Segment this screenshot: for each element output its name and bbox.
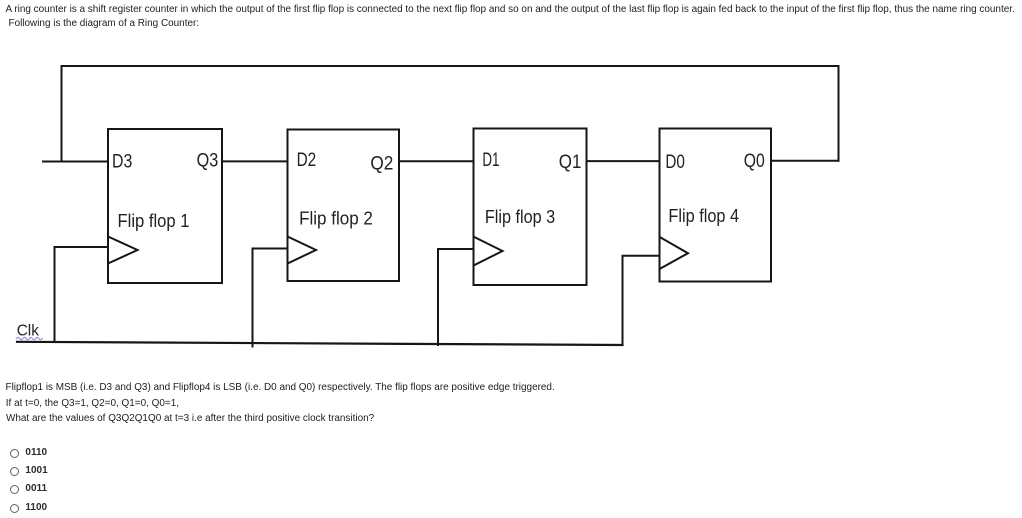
question line 2 — [6, 398, 179, 409]
flip-flop box FF1 — [108, 129, 222, 283]
svg-text:D1: D1 — [482, 149, 499, 171]
svg-text:D0: D0 — [665, 151, 685, 173]
wire clk to FF1 — [55, 247, 109, 342]
clock triangle FF3 — [474, 237, 503, 266]
wire Q2 to D1 — [399, 160, 474, 162]
flip-flop box FF4 — [660, 129, 772, 282]
radio option 0011 — [10, 485, 19, 494]
flip-flop box FF3 — [474, 129, 587, 286]
clock triangle FF2 — [288, 237, 317, 264]
wire clk to FF4 — [623, 256, 660, 345]
wire input stub to D3 — [43, 161, 108, 163]
clock bus line — [17, 342, 623, 345]
clock triangle FF4 — [660, 237, 689, 269]
svg-text:Q0: Q0 — [744, 150, 765, 172]
wire Q0 to feedback — [771, 160, 839, 162]
svg-text:Q3: Q3 — [197, 150, 219, 172]
spellcheck squiggle under Clk — [17, 337, 43, 339]
wire feedback top — [62, 66, 839, 162]
svg-text:Flip flop 3: Flip flop 3 — [485, 206, 555, 227]
svg-text:Flip flop 4: Flip flop 4 — [668, 205, 739, 226]
wire clk to FF2 — [253, 249, 288, 347]
svg-text:D2: D2 — [297, 149, 317, 171]
paragraph line 1 — [6, 4, 1015, 15]
question line 1 — [6, 382, 555, 393]
radio option 1001 — [10, 467, 19, 476]
svg-text:Flip flop 2: Flip flop 2 — [299, 208, 373, 229]
svg-text:D3: D3 — [112, 151, 132, 173]
clock triangle FF1 — [108, 237, 138, 264]
svg-text:Flip flop 1: Flip flop 1 — [118, 210, 190, 231]
flip-flop box FF2 — [288, 130, 400, 282]
wire Q1 to D0 — [587, 160, 660, 162]
wire Q3 to D2 — [222, 160, 288, 162]
paragraph line 2 — [9, 18, 200, 29]
svg-text:Q1: Q1 — [559, 151, 582, 173]
wire clk to FF3 — [438, 249, 474, 345]
question line 3 — [6, 413, 374, 424]
svg-text:Q2: Q2 — [370, 152, 393, 174]
svg-text:Clk: Clk — [17, 323, 39, 340]
radio option 1100 — [10, 504, 19, 513]
radio option 0110 — [10, 449, 19, 458]
